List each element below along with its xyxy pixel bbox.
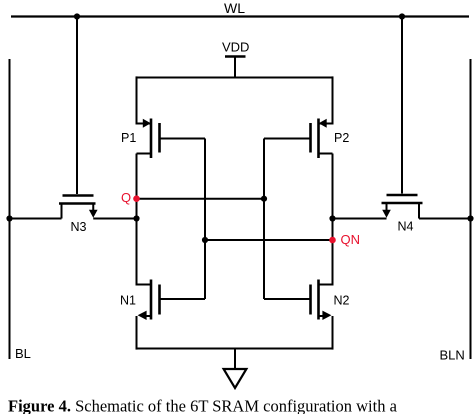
wire N1 source to rail [136,316,138,350]
junction left gates to QN line [202,237,208,243]
transistor N2 [264,280,333,321]
junction WL-left [74,13,80,19]
junction BL-N3 [6,215,12,221]
wire N3 to Q column [93,218,136,220]
wire left gates vertical [204,139,206,300]
wire N4 gate from WL [401,17,403,194]
svg-text:VDD: VDD [222,40,249,55]
svg-text:QN: QN [341,232,361,247]
wire VDD rail [137,77,333,79]
wire BL to N3 [10,218,62,220]
svg-text:BLN: BLN [440,348,465,363]
transistor N1 [137,280,206,321]
transistor P2 [264,119,333,159]
svg-text:P2: P2 [334,131,349,145]
node QN [329,237,336,244]
transistor N3 [59,196,98,219]
wire N2 source to rail [332,316,334,350]
svg-text:N1: N1 [120,294,136,308]
wire BLN line [470,59,472,359]
transistor P1 [137,119,206,159]
ground [224,349,247,389]
junction WL-right [399,13,405,19]
wire cross-couple Q level [137,198,265,200]
svg-text:BL: BL [15,346,31,361]
wire bottom rail [137,348,333,350]
wire N3 gate from WL [76,17,78,195]
wire WL rail [11,15,469,17]
junction right gates to Q line [261,196,267,202]
junction N3-Q column [133,215,139,221]
svg-text:Figure 4. Schematic of the 6T: Figure 4. Schematic of the 6T SRAM confi… [8,397,398,414]
wire right column top [332,76,334,124]
svg-text:N3: N3 [71,220,87,234]
svg-text:P1: P1 [121,131,136,145]
svg-text:N2: N2 [334,294,350,308]
wire right gates vertical [263,139,265,300]
wire N4 to BLN [419,218,471,220]
junction QN column-N4 [329,215,335,221]
wire left column top [136,76,138,124]
wire BL line [9,59,11,359]
junction N4-BLN [467,215,473,221]
power VDD symbol [225,57,246,78]
svg-text:Q: Q [121,190,131,205]
wire QN column to N4 [333,218,387,220]
svg-text:WL: WL [224,0,245,16]
node Q [133,195,140,202]
svg-text:N4: N4 [398,220,414,234]
wire right column middle [332,154,334,286]
transistor N4 [382,195,423,219]
wire left column middle [136,154,138,286]
wire cross-couple QN level [205,239,333,241]
